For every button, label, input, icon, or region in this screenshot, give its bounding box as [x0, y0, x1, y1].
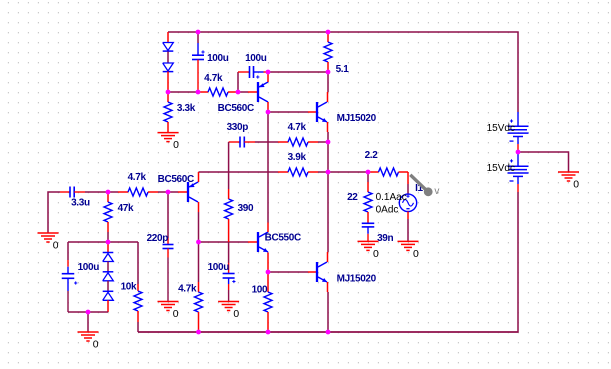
- svg-text:4.7k: 4.7k: [288, 122, 307, 133]
- svg-text:39n: 39n: [377, 233, 393, 244]
- wire to Q2 base: [168, 191, 178, 193]
- wire between D4 and D5: [107, 281, 109, 292]
- resistor R11 4.7k (horizontal): [108, 191, 118, 193]
- svg-text:100u: 100u: [207, 53, 229, 64]
- wire 330p left column down to Q2 emitter row: [228, 142, 230, 172]
- ground stub from left box: [87, 312, 89, 332]
- bottom rail: [138, 331, 518, 333]
- svg-text:v: v: [434, 186, 439, 197]
- svg-text:0Adc: 0Adc: [376, 205, 399, 216]
- capacitor C5 220p (vertical): [167, 192, 169, 238]
- svg-text:100u: 100u: [245, 53, 267, 64]
- wire 100u C1 top stub from rail: [197, 32, 199, 43]
- transistor Q3 MJ15020 (NPN, upper output): [308, 111, 317, 113]
- svg-text:4.7k: 4.7k: [204, 73, 223, 84]
- wire output column down to Q4 collector: [327, 172, 329, 252]
- svg-text:MJ15020: MJ15020: [337, 274, 377, 285]
- svg-text:15Vdc: 15Vdc: [487, 163, 515, 174]
- ground 0 below left box: [78, 331, 99, 333]
- wire Q2 emitter corner to junction: [199, 171, 229, 173]
- transistor Q5 BC550C (NPN): [248, 241, 258, 243]
- resistor R1 3.3k (vertical): [167, 92, 169, 102]
- svg-text:10k: 10k: [121, 281, 137, 292]
- svg-text:0: 0: [573, 180, 579, 191]
- svg-text:0: 0: [53, 240, 59, 251]
- wire battery bottom down right side to bottom rail: [138, 192, 518, 332]
- svg-text:15Vdc: 15Vdc: [487, 123, 515, 134]
- svg-text:5.1: 5.1: [336, 64, 350, 75]
- wire Q1 collector column down to Q5 collector: [267, 112, 269, 223]
- wire between D1 and D2: [167, 52, 169, 64]
- battery V1 15Vdc (upper): [517, 112, 519, 126]
- diode D4: [103, 271, 114, 273]
- svg-text:BC550C: BC550C: [265, 232, 301, 243]
- svg-text:3.9k: 3.9k: [288, 152, 307, 163]
- wire left box left side: [67, 242, 69, 260]
- junction node dots: [196, 30, 201, 35]
- node row y=92: wire from diode column to C1 column: [168, 91, 198, 93]
- transistor Q1 BC560C (PNP): [248, 91, 258, 93]
- battery V2 15Vdc (lower): [517, 152, 519, 166]
- svg-text:0: 0: [93, 339, 99, 350]
- wire Q2 collector column down: [198, 212, 200, 242]
- resistor R10 47k (vertical): [107, 192, 109, 202]
- resistor R7 2.2 (horizontal): [368, 171, 379, 173]
- transistor Q2 BC560C (PNP, input): [178, 191, 188, 193]
- wire 10k column: [137, 242, 139, 284]
- svg-text:100: 100: [252, 284, 268, 295]
- wire emitter row y=72 to R3 column: [268, 71, 328, 73]
- wire row y=242 to Q5 base: [199, 241, 249, 243]
- svg-text:330p: 330p: [227, 122, 249, 133]
- capacitor C1 100u (electrolytic, vertical): [197, 43, 199, 55]
- svg-text:0: 0: [173, 140, 179, 151]
- wire C2 bridge corner to base node: [237, 72, 239, 92]
- resistor R15 100 (vertical): [267, 272, 269, 292]
- wire output column between rows 142-172: [327, 142, 329, 172]
- wire battery midpoint to right ground: [518, 152, 569, 172]
- capacitor C7 100u (electrolytic): [228, 263, 230, 274]
- resistor R5 3.9k (horizontal): [229, 171, 278, 173]
- wire left box bottom: [68, 311, 108, 313]
- ground 0 below R1: [158, 132, 179, 134]
- wire base node to Q1: [238, 91, 248, 93]
- diode D2: [163, 63, 174, 71]
- capacitor C6 100u (electrolytic, left box): [67, 260, 69, 267]
- svg-text:0: 0: [173, 309, 179, 320]
- svg-text:4.7k: 4.7k: [178, 283, 197, 294]
- diode D1: [167, 32, 169, 43]
- ground 0 below 220p: [158, 301, 179, 303]
- svg-text:22: 22: [347, 192, 358, 203]
- transistor Q4 MJ15020 (NPN, lower output): [308, 271, 317, 273]
- svg-text:47k: 47k: [118, 203, 134, 214]
- svg-text:4.7k: 4.7k: [128, 172, 147, 183]
- capacitor C8 39n: [362, 222, 375, 224]
- svg-text:100u: 100u: [208, 262, 230, 273]
- resistor R13 4.7k (vertical, Q2 collector load): [198, 242, 200, 282]
- svg-text:BC560C: BC560C: [158, 174, 194, 185]
- wire left bias box top: [68, 241, 108, 243]
- resistor R14 390 (vertical): [228, 172, 230, 189]
- svg-text:2.2: 2.2: [365, 150, 379, 161]
- wire corner 2.2 to current source: [407, 172, 409, 184]
- wire output row to 22 column: [328, 171, 368, 173]
- diode D5: [103, 290, 114, 292]
- wire 390 column below row 242 to C7: [228, 242, 230, 263]
- svg-text:220p: 220p: [147, 233, 169, 244]
- ground 0 at input: [38, 232, 59, 234]
- resistor R3 5.1 (vertical): [327, 32, 329, 42]
- resistor R12 10k (vertical): [137, 284, 139, 291]
- svg-text:3.3u: 3.3u: [71, 197, 90, 208]
- svg-text:0.1Aac: 0.1Aac: [376, 192, 407, 203]
- svg-text:390: 390: [238, 203, 254, 214]
- capacitor C3 330p (horizontal): [229, 141, 240, 143]
- capacitor C2 100u (horizontal electrolytic): [238, 71, 250, 73]
- capacitor C4 3.3u (horizontal input cap): [60, 191, 70, 193]
- resistor R2 4.7k (horizontal, base feed): [198, 91, 208, 93]
- input corner wire: [48, 192, 60, 233]
- current source I1 0.1Aac 0Adc: [399, 194, 416, 211]
- ground 0 below C7: [218, 301, 239, 303]
- ground 0 below current source: [398, 240, 419, 242]
- svg-text:100u: 100u: [78, 262, 100, 273]
- wire top supply rail from diode column to right side: [168, 32, 518, 112]
- wire 5.1 node down to Q3 collector: [327, 72, 329, 92]
- svg-text:BC560C: BC560C: [218, 103, 254, 114]
- ground 0 right side: [558, 171, 579, 173]
- wire between D3 and D4: [107, 262, 109, 272]
- ground 0 below 39n: [358, 240, 379, 242]
- wire base row y=112 from Q1 collector node: [268, 111, 308, 113]
- resistor R4 4.7k (horizontal feedback): [278, 141, 288, 143]
- svg-text:0: 0: [373, 249, 379, 260]
- wire Q4 emitter to bottom rail: [327, 292, 329, 332]
- svg-text:3.3k: 3.3k: [177, 103, 196, 114]
- svg-text:0: 0: [413, 249, 419, 260]
- resistor R8 22 (vertical): [367, 172, 369, 182]
- wire Q5 emitter row to Q4 base: [268, 271, 308, 273]
- wire current source to ground: [407, 212, 409, 220]
- svg-text:MJ15020: MJ15020: [337, 113, 377, 124]
- wire Q3 emitter to output node: [327, 132, 329, 142]
- wire 330p right to vertical column: [255, 141, 278, 143]
- voltage marker V probe (gray): [410, 175, 427, 192]
- diode D3 (bottom of chain, pointing up): [107, 242, 109, 253]
- svg-text:0: 0: [233, 309, 239, 320]
